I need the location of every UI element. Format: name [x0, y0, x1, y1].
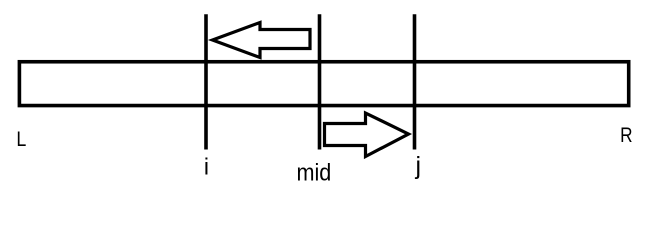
svg-text:mid: mid — [297, 158, 332, 185]
svg-text:R: R — [620, 125, 632, 148]
svg-text:j: j — [415, 152, 422, 180]
svg-text:L: L — [16, 128, 26, 152]
svg-text:i: i — [204, 154, 209, 180]
